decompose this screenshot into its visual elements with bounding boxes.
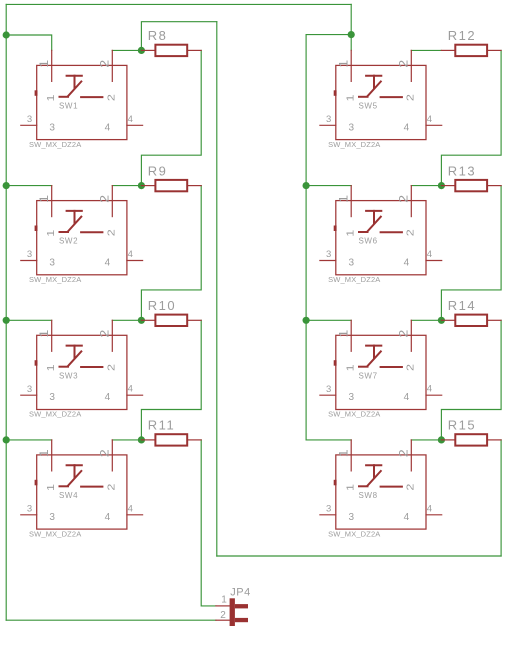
SW7 actuator lever xyxy=(368,351,381,365)
junction R11 input xyxy=(138,436,145,443)
svg-text:2: 2 xyxy=(399,60,411,68)
svg-text:1: 1 xyxy=(346,483,357,491)
svg-text:3: 3 xyxy=(326,114,331,125)
SW8 left contact xyxy=(359,485,368,487)
svg-text:1: 1 xyxy=(221,594,227,605)
SW2 body outline xyxy=(37,201,127,275)
SW2 actuator lever xyxy=(68,217,81,231)
svg-text:SW_MX_DZ2A: SW_MX_DZ2A xyxy=(328,529,380,538)
wire SW7 pin 2 to R14 xyxy=(411,319,441,321)
R13 body xyxy=(455,180,487,191)
SW2 pin 1 xyxy=(51,186,53,217)
svg-text:SW_MX_DZ2A: SW_MX_DZ2A xyxy=(29,529,81,538)
wire bottom to JP4 pin 2 xyxy=(6,619,216,621)
SW1 pin 1 xyxy=(51,50,53,81)
svg-text:3: 3 xyxy=(49,392,55,403)
resistor R14 xyxy=(441,298,501,326)
SW6 left contact xyxy=(359,231,368,233)
svg-text:3: 3 xyxy=(349,392,355,403)
wire R12 output to R13 input link xyxy=(441,50,501,185)
wire SW3 pin 2 to R10 xyxy=(112,319,141,321)
SW1 body outline xyxy=(37,65,127,139)
SW7 plunger bar xyxy=(366,345,381,347)
svg-text:JP4: JP4 xyxy=(230,586,250,598)
svg-text:1: 1 xyxy=(346,229,357,237)
resistor R15 xyxy=(441,418,501,446)
wire right bus to SW5 pin 1 xyxy=(350,35,352,51)
R8 right lead xyxy=(187,49,201,51)
wire right bus vertical xyxy=(305,35,307,440)
svg-text:3: 3 xyxy=(326,249,331,260)
SW6 body outline xyxy=(336,201,426,275)
SW7 pin 1 xyxy=(350,320,352,351)
R14 body xyxy=(455,315,487,326)
SW5 left contact xyxy=(359,96,368,98)
JP4 pin 2 lead xyxy=(216,619,230,621)
wire left bus to SW1 pin 1 (jog) xyxy=(6,35,52,50)
switch SW2 xyxy=(21,186,143,284)
SW6 pin 1 xyxy=(350,186,352,217)
svg-text:R9: R9 xyxy=(148,163,168,178)
svg-text:1: 1 xyxy=(39,449,51,457)
SW5 right contact xyxy=(381,96,402,98)
svg-text:SW_MX_DZ2A: SW_MX_DZ2A xyxy=(29,410,81,419)
R9 right lead xyxy=(187,185,201,187)
svg-text:1: 1 xyxy=(346,364,357,372)
svg-text:2: 2 xyxy=(106,229,117,237)
R15 body xyxy=(455,434,487,445)
switch SW4 xyxy=(21,440,143,538)
R9 left lead xyxy=(141,185,155,187)
svg-text:4: 4 xyxy=(128,384,133,395)
SW1 pin 3 xyxy=(21,124,37,126)
SW8 right contact xyxy=(381,486,402,488)
resistor R12 xyxy=(441,28,501,56)
junction left bus row 4 xyxy=(3,436,10,443)
svg-text:R8: R8 xyxy=(148,28,168,43)
svg-text:3: 3 xyxy=(27,504,32,515)
svg-text:1: 1 xyxy=(39,330,51,338)
R12 body xyxy=(455,45,487,56)
SW4 left contact xyxy=(60,485,69,487)
SW4 pin 1 xyxy=(51,440,53,471)
JP4 pin 1 lead xyxy=(216,605,230,607)
R15 right lead xyxy=(487,439,501,441)
SW2 plunger stem xyxy=(74,211,76,224)
svg-text:SW_MX_DZ2A: SW_MX_DZ2A xyxy=(29,275,81,284)
svg-text:3: 3 xyxy=(27,114,32,125)
SW6 right contact xyxy=(381,231,402,233)
SW2 right contact xyxy=(81,231,102,233)
SW6 pin 3 xyxy=(320,260,336,262)
svg-text:1: 1 xyxy=(338,195,350,203)
R10 right lead xyxy=(187,319,201,321)
SW4 pin 4 xyxy=(127,514,143,516)
SW1 pin 4 xyxy=(127,124,143,126)
svg-text:3: 3 xyxy=(49,258,55,269)
SW7 right contact xyxy=(381,366,402,368)
R10 body xyxy=(155,315,187,326)
svg-text:SW8: SW8 xyxy=(359,491,378,500)
svg-text:SW7: SW7 xyxy=(359,371,378,380)
svg-text:1: 1 xyxy=(39,195,51,203)
switch SW3 xyxy=(21,320,143,418)
svg-text:2: 2 xyxy=(399,330,411,338)
SW4 pin 3 xyxy=(21,514,37,516)
svg-text:4: 4 xyxy=(427,384,432,395)
svg-text:1: 1 xyxy=(46,364,57,372)
SW8 pin 2 xyxy=(410,440,412,471)
SW6 housing tick xyxy=(334,226,337,232)
switch SW1 xyxy=(21,50,143,148)
wire R11 output to JP4 pin 1 xyxy=(201,440,216,606)
svg-text:2: 2 xyxy=(100,330,112,338)
SW1 pin 2 xyxy=(111,50,113,81)
svg-text:R15: R15 xyxy=(448,418,476,433)
svg-text:1: 1 xyxy=(338,449,350,457)
svg-text:3: 3 xyxy=(326,504,331,515)
junction R13 input xyxy=(438,182,445,189)
SW4 plunger stem xyxy=(74,465,76,478)
SW1 right contact xyxy=(81,96,102,98)
R13 right lead xyxy=(487,185,501,187)
svg-text:R14: R14 xyxy=(448,298,476,313)
SW5 actuator lever xyxy=(368,82,381,96)
switch SW8 xyxy=(320,440,442,538)
SW7 pin 4 xyxy=(426,394,442,396)
svg-text:4: 4 xyxy=(128,249,133,260)
svg-text:1: 1 xyxy=(338,330,350,338)
SW4 actuator lever xyxy=(68,471,81,485)
svg-text:2: 2 xyxy=(106,483,117,491)
svg-text:2: 2 xyxy=(405,363,416,371)
SW5 plunger stem xyxy=(373,76,375,89)
junction left bus row 2 xyxy=(3,182,10,189)
SW5 pin 2 xyxy=(410,50,412,81)
svg-text:4: 4 xyxy=(404,512,410,523)
SW7 pin 3 xyxy=(320,394,336,396)
svg-text:2: 2 xyxy=(106,94,117,102)
SW3 housing tick xyxy=(35,360,38,366)
svg-text:3: 3 xyxy=(49,122,55,133)
junction R10 input xyxy=(138,317,145,324)
svg-text:3: 3 xyxy=(349,122,355,133)
SW3 pin 4 xyxy=(127,394,143,396)
svg-text:4: 4 xyxy=(404,122,410,133)
SW4 pin 2 xyxy=(111,440,113,471)
junction left bus row 3 xyxy=(3,317,10,324)
connector JP4 xyxy=(216,586,251,626)
svg-text:SW_MX_DZ2A: SW_MX_DZ2A xyxy=(328,275,380,284)
svg-text:4: 4 xyxy=(128,114,133,125)
R9 body xyxy=(155,180,187,191)
R8 left lead xyxy=(141,49,155,51)
svg-text:SW1: SW1 xyxy=(59,101,78,110)
R11 left lead xyxy=(141,439,155,441)
SW6 pin 4 xyxy=(426,260,442,262)
JP4 body bar xyxy=(230,598,235,626)
SW5 pin 3 xyxy=(320,124,336,126)
wire right bus to SW7 pin 1 xyxy=(306,319,351,321)
junction R15 input xyxy=(438,436,445,443)
SW3 right contact xyxy=(81,366,102,368)
wire right bus to SW8 pin 1 xyxy=(306,439,351,441)
junction R14 input xyxy=(438,317,445,324)
SW4 body outline xyxy=(37,455,127,529)
SW1 left contact xyxy=(60,96,69,98)
svg-text:1: 1 xyxy=(46,94,57,102)
svg-text:2: 2 xyxy=(220,610,226,621)
R14 right lead xyxy=(487,319,501,321)
SW8 pin 3 xyxy=(320,514,336,516)
wire right bus to SW6 pin 1 xyxy=(306,185,351,187)
SW7 pin 2 xyxy=(410,320,412,351)
junction right bus row 3 xyxy=(303,317,310,324)
svg-text:4: 4 xyxy=(105,392,111,403)
SW3 left contact xyxy=(60,366,69,368)
svg-text:SW3: SW3 xyxy=(59,371,78,380)
SW6 plunger bar xyxy=(366,210,381,212)
wire SW1 pin 2 to R8 xyxy=(112,49,141,51)
resistor R8 xyxy=(141,28,201,56)
wire top bus horizontal xyxy=(6,3,351,5)
switch SW6 xyxy=(320,186,442,284)
resistor R10 xyxy=(141,298,201,326)
svg-text:2: 2 xyxy=(399,195,411,203)
SW5 pin 1 xyxy=(350,50,352,81)
SW7 body outline xyxy=(336,335,426,409)
SW1 plunger bar xyxy=(67,75,82,77)
svg-text:SW_MX_DZ2A: SW_MX_DZ2A xyxy=(29,140,81,149)
JP4 pin 1 head xyxy=(235,604,248,608)
SW8 pin 1 xyxy=(350,440,352,471)
resistor R13 xyxy=(441,163,501,191)
R12 left lead xyxy=(441,49,455,51)
R12 right lead xyxy=(487,49,501,51)
junction right bus row 2 xyxy=(303,182,310,189)
SW8 plunger stem xyxy=(373,465,375,478)
resistor R9 xyxy=(141,163,201,191)
svg-text:3: 3 xyxy=(27,384,32,395)
R13 left lead xyxy=(441,185,455,187)
svg-text:2: 2 xyxy=(106,363,117,371)
junction right bus row 1 xyxy=(348,31,355,38)
SW5 housing tick xyxy=(334,90,337,96)
SW8 plunger bar xyxy=(366,464,381,466)
wire SW2 pin 2 to R9 xyxy=(112,185,141,187)
svg-text:R12: R12 xyxy=(448,28,476,43)
svg-text:1: 1 xyxy=(338,60,350,68)
svg-text:2: 2 xyxy=(100,449,112,457)
svg-text:4: 4 xyxy=(105,512,111,523)
SW1 actuator lever xyxy=(68,82,81,96)
junction R8 input xyxy=(138,47,145,54)
SW2 plunger bar xyxy=(67,210,82,212)
svg-text:3: 3 xyxy=(349,258,355,269)
wire long middle vertical xyxy=(216,22,218,556)
svg-text:4: 4 xyxy=(404,392,410,403)
SW5 pin 4 xyxy=(426,124,442,126)
wire R9 output to R10 input link xyxy=(141,186,201,321)
wire R15 output drop xyxy=(500,440,502,556)
SW3 pin 2 xyxy=(111,320,113,351)
svg-text:R10: R10 xyxy=(148,298,176,313)
wire left bus to SW2 pin 1 xyxy=(6,185,52,187)
SW4 housing tick xyxy=(35,480,38,486)
SW3 actuator lever xyxy=(68,351,81,365)
svg-text:R13: R13 xyxy=(448,163,476,178)
svg-text:SW_MX_DZ2A: SW_MX_DZ2A xyxy=(328,410,380,419)
SW2 left contact xyxy=(60,231,69,233)
wire SW8 pin 2 to R15 xyxy=(411,439,441,441)
svg-text:2: 2 xyxy=(405,94,416,102)
R10 left lead xyxy=(141,319,155,321)
SW4 right contact xyxy=(81,486,102,488)
switch SW5 xyxy=(320,50,442,148)
SW1 housing tick xyxy=(35,90,38,96)
wire bottom link horizontal xyxy=(217,555,501,557)
svg-text:1: 1 xyxy=(346,94,357,102)
svg-text:4: 4 xyxy=(427,114,432,125)
SW2 pin 3 xyxy=(21,260,37,262)
wire right bus jog to left xyxy=(306,34,351,36)
wire R14 output to R15 input link xyxy=(441,320,501,440)
wire right bus drop from top xyxy=(350,4,352,34)
SW2 pin 2 xyxy=(111,186,113,217)
SW8 actuator lever xyxy=(368,471,381,485)
SW2 pin 4 xyxy=(127,260,143,262)
svg-text:3: 3 xyxy=(49,512,55,523)
R11 body xyxy=(155,434,187,445)
svg-text:2: 2 xyxy=(405,483,416,491)
svg-text:4: 4 xyxy=(105,122,111,133)
svg-text:2: 2 xyxy=(100,60,112,68)
SW4 plunger bar xyxy=(67,464,82,466)
wire R13 output to R14 input link xyxy=(441,186,501,321)
SW7 left contact xyxy=(359,366,368,368)
wire R8 output to R9 input link xyxy=(141,50,201,185)
wire SW5 pin 2 to R12 xyxy=(411,49,441,51)
resistor R11 xyxy=(141,418,201,446)
svg-text:4: 4 xyxy=(427,503,432,514)
R15 left lead xyxy=(441,439,455,441)
svg-text:1: 1 xyxy=(46,483,57,491)
SW3 pin 1 xyxy=(51,320,53,351)
svg-text:4: 4 xyxy=(105,258,111,269)
SW1 plunger stem xyxy=(74,76,76,89)
SW3 pin 3 xyxy=(21,394,37,396)
R11 right lead xyxy=(187,439,201,441)
svg-text:SW6: SW6 xyxy=(359,237,378,246)
svg-text:4: 4 xyxy=(427,249,432,260)
SW8 housing tick xyxy=(334,480,337,486)
wire left bus vertical xyxy=(5,4,7,620)
junction left bus row 1 xyxy=(3,31,10,38)
svg-text:3: 3 xyxy=(326,384,331,395)
wire R10 output to R11 input link xyxy=(141,320,201,440)
svg-text:2: 2 xyxy=(399,449,411,457)
svg-text:4: 4 xyxy=(404,258,410,269)
SW7 plunger stem xyxy=(373,346,375,359)
svg-text:3: 3 xyxy=(27,249,32,260)
svg-text:SW2: SW2 xyxy=(59,237,78,246)
R8 body xyxy=(155,45,187,56)
SW3 plunger bar xyxy=(67,345,82,347)
SW5 body outline xyxy=(336,65,426,139)
wire R8 riser to top link xyxy=(141,22,216,51)
SW2 housing tick xyxy=(35,226,38,232)
SW3 body outline xyxy=(37,335,127,409)
SW7 housing tick xyxy=(334,360,337,366)
switch SW7 xyxy=(320,320,442,418)
SW6 plunger stem xyxy=(373,211,375,224)
wire left bus to SW3 pin 1 xyxy=(6,319,52,321)
svg-text:R11: R11 xyxy=(148,418,175,433)
SW8 body outline xyxy=(336,455,426,529)
svg-text:1: 1 xyxy=(46,229,57,237)
wire left bus to SW4 pin 1 xyxy=(6,439,52,441)
svg-text:3: 3 xyxy=(349,512,355,523)
SW6 pin 2 xyxy=(410,186,412,217)
junction R9 input xyxy=(138,182,145,189)
svg-text:1: 1 xyxy=(39,60,51,68)
SW5 plunger bar xyxy=(366,75,381,77)
SW3 plunger stem xyxy=(74,346,76,359)
svg-text:SW4: SW4 xyxy=(59,491,78,500)
R14 left lead xyxy=(441,319,455,321)
svg-text:4: 4 xyxy=(128,503,133,514)
wire SW6 pin 2 to R13 xyxy=(411,185,441,187)
JP4 pin 2 head xyxy=(235,618,248,622)
wire SW4 pin 2 to R11 xyxy=(112,439,141,441)
svg-text:SW5: SW5 xyxy=(359,101,378,110)
SW6 actuator lever xyxy=(368,217,381,231)
svg-text:2: 2 xyxy=(100,195,112,203)
svg-text:2: 2 xyxy=(405,229,416,237)
SW8 pin 4 xyxy=(426,514,442,516)
svg-text:SW_MX_DZ2A: SW_MX_DZ2A xyxy=(328,140,380,149)
